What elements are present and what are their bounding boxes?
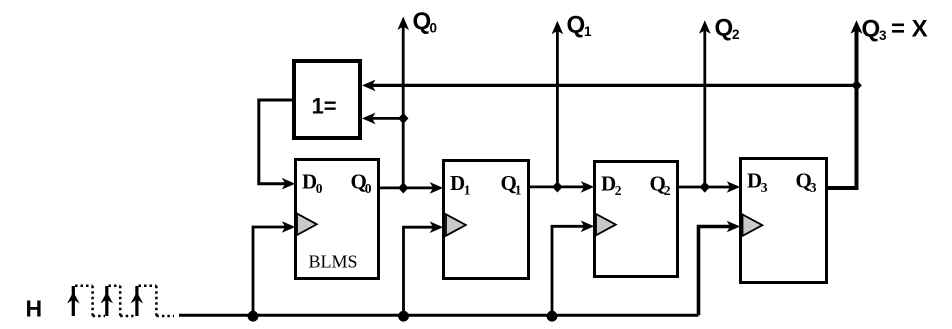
svg-text:BLMS: BLMS — [309, 252, 358, 272]
FF3 pin label D2 — [601, 172, 622, 199]
node label Q0 — [413, 8, 438, 36]
wire: Q0 to D1 — [380, 182, 443, 194]
wire: Q3 output line (thick) from FF4 to top arrow — [828, 20, 863, 188]
svg-text:= X: = X — [891, 16, 928, 43]
junction dot on clock bus at FF1 riser — [248, 311, 259, 322]
svg-text:0: 0 — [316, 181, 323, 196]
clock waveform pulse 1: rising-edge arrow — [67, 286, 80, 316]
wire: XOR output loop to D0 input — [259, 100, 296, 190]
wire: clock riser to FF2 — [404, 221, 444, 315]
svg-text:3: 3 — [761, 180, 768, 195]
wire: XOR feedback bottom input from Q0 line — [362, 113, 403, 125]
node label Q2 — [715, 15, 740, 43]
junction: diamond at Q0 node — [398, 182, 408, 193]
junction: diamond at Q2 node — [700, 181, 710, 192]
svg-text:1: 1 — [584, 24, 592, 39]
FF4 clock triangle — [743, 215, 763, 236]
svg-text:0: 0 — [430, 21, 438, 36]
clock waveform pulse 1: dotted high and fall — [75, 286, 105, 316]
svg-text:Q: Q — [862, 16, 881, 43]
clock waveform pulse 2: rising-edge arrow — [101, 286, 114, 316]
FF1 pin label D0 — [302, 169, 323, 196]
svg-text:0: 0 — [365, 181, 372, 196]
junction: diamond at Q1 node — [552, 181, 562, 192]
svg-text:1: 1 — [464, 183, 471, 198]
FF4 pin label Q3 — [796, 169, 817, 196]
FF3 pin label Q2 — [650, 172, 671, 199]
flip-flop FF4 box — [741, 159, 827, 283]
wire: clock riser to FF1 — [253, 221, 295, 315]
junction dot on clock bus at FF3 riser — [547, 311, 558, 322]
junction: diamond on Q3 line at feedback tap — [851, 80, 861, 91]
wire: clock riser to FF3 — [552, 221, 594, 316]
flip-flop FF3 box — [595, 162, 678, 277]
flip-flop FF2 box — [444, 161, 529, 279]
clock waveform pulse 2: dotted high and fall — [109, 286, 134, 316]
svg-text:Q: Q — [413, 8, 432, 35]
clock waveform pulse 3: dotted high and fall — [139, 286, 175, 316]
svg-text:2: 2 — [615, 183, 622, 198]
FF1 clock triangle — [297, 214, 317, 235]
svg-text:Q: Q — [567, 12, 586, 39]
svg-text:Q: Q — [715, 15, 734, 42]
xor gate U1 box (1=) — [294, 61, 360, 138]
FF4 pin label D3 — [747, 169, 768, 196]
junction: diamond on Q0 line at feedback tap — [398, 113, 408, 124]
wire: clock bus corner riser to FF4 — [699, 221, 741, 316]
node label Q1 — [567, 12, 593, 40]
svg-text:H: H — [26, 296, 43, 322]
FF3 clock triangle — [596, 214, 616, 235]
FF1 pin label Q0 — [351, 169, 372, 196]
FF2 pin label Q1 — [501, 171, 522, 198]
svg-text:3: 3 — [810, 180, 817, 195]
flip-flop FF1 box — [296, 160, 379, 279]
wire: Q1 output vertical line with up arrow — [552, 21, 564, 187]
junction dot on clock bus at FF2 riser — [398, 311, 409, 322]
wire: Q1 to D2 — [530, 181, 594, 193]
clock waveform pulse 3: rising-edge arrow — [131, 286, 144, 316]
svg-text:1=: 1= — [312, 94, 337, 119]
FF2 pin label D1 — [450, 171, 471, 198]
wire: Q0 output vertical line with up arrow — [397, 17, 409, 189]
wire: Q2 output vertical line with up arrow — [699, 20, 711, 187]
wire: clock bus H — [179, 314, 699, 317]
FF2 clock triangle — [446, 214, 466, 235]
wire: Q2 to D3 — [679, 181, 740, 193]
svg-text:3: 3 — [879, 28, 887, 43]
node label Q3 = X — [862, 16, 928, 44]
svg-text:2: 2 — [664, 183, 671, 198]
svg-text:2: 2 — [732, 27, 740, 42]
wire: XOR feedback top input from Q3 line — [362, 80, 857, 92]
svg-text:1: 1 — [515, 183, 522, 198]
